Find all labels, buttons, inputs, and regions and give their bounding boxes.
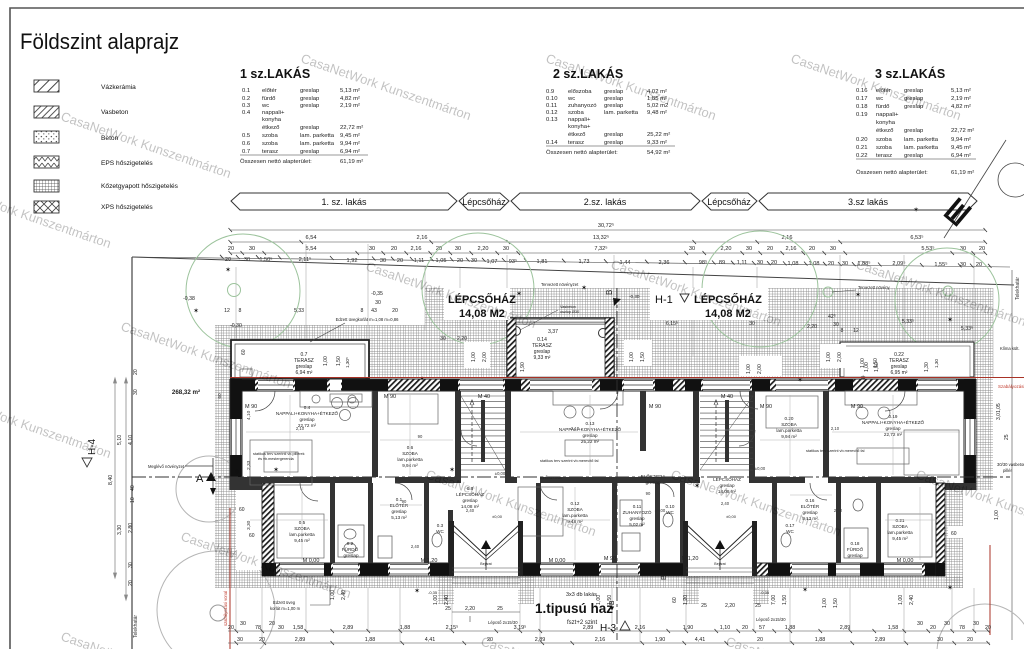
svg-text:6,94 m²: 6,94 m² [951,153,971,159]
terrace side walls [507,318,614,377]
svg-text:szoba: szoba [568,110,584,116]
svg-text:0.3: 0.3 [242,103,251,109]
svg-text:szoba: szoba [876,137,892,143]
svg-text:0.2: 0.2 [242,96,250,102]
svg-text:✶: ✶ [419,375,425,383]
svg-text:±0,00: ±0,00 [492,514,503,519]
svg-text:greslap: greslap [645,480,661,485]
yard paving hatch [215,288,993,604]
svg-text:-0,35: -0,35 [428,590,438,595]
north arrow top right [943,140,1024,238]
svg-text:9,94 m²: 9,94 m² [781,434,797,439]
terrace 0.7 [231,340,369,378]
stairwell 1 stairs [461,396,505,470]
svg-text:étkező: étkező [262,125,280,131]
svg-text:2,20: 2,20 [807,324,817,330]
svg-text:SZOBA: SZOBA [402,451,419,456]
survey star markers [193,206,953,595]
svg-text:Edzett üveg: Edzett üveg [273,600,296,605]
svg-text:2,89: 2,89 [295,637,306,643]
left inner rotated dims [246,410,970,530]
svg-text:5,10: 5,10 [117,435,123,445]
stair direction arrows [470,400,718,462]
svg-text:8,40: 8,40 [108,475,114,485]
svg-text:25,22 m²: 25,22 m² [581,439,600,444]
svg-text:konyha: konyha [262,117,282,123]
svg-text:20: 20 [133,369,139,375]
svg-text:1,50: 1,50 [640,352,646,362]
stairwell 1 walls [455,391,461,483]
svg-text:1,50: 1,50 [607,595,613,605]
terrace inner dims rotated [241,349,930,372]
svg-text:1,00: 1,00 [433,595,439,605]
svg-text:90: 90 [402,499,407,504]
svg-text:statikus terv szerinti vb.pill: statikus terv szerinti vb.pillérek [253,452,305,456]
svg-text:✶: ✶ [414,587,420,595]
svg-text:30: 30 [369,246,375,252]
svg-text:30: 30 [833,322,839,328]
svg-text:greslap: greslap [904,153,924,159]
svg-text:±0,00: ±0,00 [495,471,506,476]
apt1 vertical wall between living and szoba [372,391,378,477]
svg-text:60: 60 [217,393,223,399]
svg-text:30: 30 [128,562,134,568]
svg-text:0.4: 0.4 [304,405,311,410]
svg-text:lam. parketta: lam. parketta [300,133,335,139]
svg-text:greslap: greslap [604,103,624,109]
furniture: apt3 szoba 0.20 bed [766,396,818,428]
svg-text:WC: WC [786,529,794,534]
svg-text:lam. parketta: lam. parketta [604,110,639,116]
svg-text:greslap: greslap [904,128,924,134]
svg-text:1,10: 1,10 [720,625,731,631]
svg-text:5,33: 5,33 [294,308,304,314]
terrace 0.22 [840,342,974,377]
apt3 vertical wall [823,391,829,477]
svg-text:0.11: 0.11 [546,103,557,109]
svg-text:30: 30 [375,300,381,306]
svg-text:2,20: 2,20 [725,603,735,609]
svg-text:3.sz lakás: 3.sz lakás [848,197,889,207]
svg-text:3,30: 3,30 [246,520,252,530]
svg-text:9,94 m²: 9,94 m² [340,141,360,147]
left outer wall [230,379,274,576]
bath fixtures apt3 [781,499,868,558]
svg-text:greslap: greslap [604,132,624,138]
svg-text:25: 25 [1004,434,1010,440]
svg-text:30: 30 [937,637,943,643]
svg-text:1,90: 1,90 [683,625,694,631]
svg-text:90: 90 [418,434,423,439]
bottom dimension chains [228,631,990,643]
svg-text:7,32⁵: 7,32⁵ [594,245,607,252]
svg-text:✶: ✶ [449,466,455,474]
svg-text:9,45 m²: 9,45 m² [340,133,360,139]
svg-text:lam. parketta: lam. parketta [300,141,335,147]
svg-text:lam. parketta: lam. parketta [904,137,939,143]
svg-text:CasaNetWork Kunszentmárton: CasaNetWork Kunszentmárton [299,51,473,123]
svg-text:-0,38: -0,38 [183,296,195,302]
svg-text:Telekhatár: Telekhatár [1015,277,1021,300]
svg-text:1,90: 1,90 [655,637,666,643]
svg-text:1,30: 1,30 [934,359,939,368]
svg-text:2,00: 2,00 [837,352,843,362]
svg-text:✶: ✶ [802,586,808,594]
svg-text:4,41: 4,41 [425,637,436,643]
svg-text:0.14: 0.14 [546,140,558,146]
svg-text:89: 89 [719,260,725,266]
svg-text:1,05: 1,05 [436,258,447,264]
svg-text:20: 20 [128,580,134,586]
svg-text:zuhanyozó: zuhanyozó [568,103,597,109]
svg-text:5,33⁵: 5,33⁵ [902,319,914,325]
svg-text:1,30⁵: 1,30⁵ [345,357,350,368]
svg-text:20: 20 [967,637,973,643]
svg-text:lam.parketta: lam.parketta [887,530,913,535]
svg-text:0.1: 0.1 [242,88,250,94]
svg-text:3,37: 3,37 [548,329,558,335]
svg-text:9,45 m²: 9,45 m² [294,538,310,543]
svg-text:78: 78 [959,625,965,631]
svg-text:1,92: 1,92 [347,258,358,264]
svg-text:1,50: 1,50 [874,362,880,372]
svg-text:1,08: 1,08 [809,261,820,267]
svg-text:✶: ✶ [913,206,919,214]
svg-text:Szabályozási: Szabályozási [998,384,1024,389]
stairwell 2 walls [749,391,755,483]
site boundary: slanted top line [132,257,1014,285]
svg-text:25,22 m²: 25,22 m² [647,132,670,138]
svg-text:Telekhatár: Telekhatár [133,615,139,638]
furniture: apt3 living [845,391,959,475]
svg-text:25: 25 [755,603,761,609]
svg-text:30: 30 [973,621,979,627]
svg-text:30: 30 [278,625,284,631]
svg-text:1,00: 1,00 [629,352,635,362]
svg-text:6,94 m²: 6,94 m² [340,149,360,155]
svg-text:1,20: 1,20 [683,595,689,605]
vertical guide lines from dims to plan [236,244,993,377]
svg-text:9,45 m²: 9,45 m² [951,145,971,151]
svg-text:30/30 vasbeton: 30/30 vasbeton [997,462,1024,467]
svg-text:8: 8 [361,308,364,314]
svg-text:30: 30 [746,246,752,252]
svg-text:90: 90 [646,491,651,496]
svg-text:20: 20 [391,246,397,252]
svg-text:oszlop Ø30: oszlop Ø30 [560,310,579,314]
svg-text:greslap: greslap [300,149,320,155]
svg-text:M 0,00: M 0,00 [303,558,320,564]
svg-text:6,54: 6,54 [306,235,317,241]
furniture: apt1 szoba 0.5 bed [277,514,324,558]
big stair labels above plan [444,288,510,320]
svg-text:20: 20 [771,260,777,266]
svg-text:20: 20 [985,625,991,631]
svg-text:Összesen nettó alapterület:: Összesen nettó alapterület: [546,149,618,156]
svg-text:30: 30 [757,260,763,266]
svg-text:9,94 m²: 9,94 m² [951,137,971,143]
svg-text:1,00: 1,00 [596,595,602,605]
svg-text:✶: ✶ [193,307,199,315]
svg-text:WC: WC [666,510,674,515]
svg-text:13,32⁵: 13,32⁵ [593,234,609,241]
svg-text:4,10: 4,10 [128,435,134,445]
svg-text:2,00: 2,00 [482,352,488,362]
room labels [276,405,925,558]
bottom-left existing vegetation circles (gray) [157,456,1024,649]
svg-text:1,00: 1,00 [826,352,832,362]
svg-text:1,55⁵: 1,55⁵ [934,261,947,268]
svg-text:1,88: 1,88 [400,625,411,631]
bottom row partitions apt2 [536,483,541,563]
svg-text:6,94 m²: 6,94 m² [296,370,313,376]
svg-text:30: 30 [689,246,695,252]
bottom row partitions apt1 [330,483,335,563]
svg-text:0.3: 0.3 [437,523,444,528]
svg-text:20: 20 [976,262,982,268]
svg-text:Bejárat: Bejárat [714,562,725,566]
svg-text:±0,00: ±0,00 [755,466,766,471]
svg-text:M 90: M 90 [649,404,661,410]
svg-text:2,89: 2,89 [535,637,546,643]
svg-text:terasz: terasz [262,149,278,155]
svg-text:Lépcsőház: Lépcsőház [462,197,506,207]
svg-text:40: 40 [130,485,136,491]
svg-text:0.12: 0.12 [546,110,557,116]
svg-text:1 sz.LAKÁS: 1 sz.LAKÁS [240,66,310,81]
svg-text:1,00: 1,00 [864,362,870,372]
svg-text:9,48 m²: 9,48 m² [647,110,667,116]
svg-text:terasz: terasz [876,153,892,159]
svg-text:2,16: 2,16 [635,625,646,631]
svg-text:20: 20 [742,625,748,631]
furniture: apt1 szoba 0.6 bed [388,394,438,424]
svg-text:1,00: 1,00 [746,364,752,374]
svg-text:2.sz. lakás: 2.sz. lakás [584,197,627,207]
svg-text:54,92 m²: 54,92 m² [647,150,670,156]
apartment table 2 [546,66,675,156]
svg-text:±0,00: ±0,00 [726,514,737,519]
svg-text:8: 8 [239,308,242,314]
svg-text:1,50: 1,50 [833,598,839,608]
svg-text:30: 30 [917,621,923,627]
apt2 vertical walls [640,391,646,451]
svg-text:3x3 db lakás: 3x3 db lakás [566,592,597,598]
svg-text:1,90: 1,90 [520,362,526,372]
svg-text:szoba: szoba [876,145,892,151]
svg-text:0.18: 0.18 [851,541,860,546]
svg-text:268,32 m²: 268,32 m² [172,389,200,396]
svg-text:1,11: 1,11 [414,258,424,264]
svg-text:terasz: terasz [568,140,584,146]
svg-text:30: 30 [240,621,246,627]
svg-text:1,88: 1,88 [815,637,826,643]
svg-text:7,00: 7,00 [771,595,777,605]
svg-text:greslap: greslap [604,140,624,146]
svg-text:ELŐTÉR: ELŐTÉR [801,503,820,509]
furniture: apt3 szoba 0.21 bed [888,514,932,557]
svg-text:30: 30 [830,246,836,252]
svg-text:2,20: 2,20 [457,336,467,342]
svg-text:4,82 m²: 4,82 m² [340,96,360,102]
svg-text:CasaNetWork Kunszentmárton: CasaNetWork Kunszentmárton [479,634,653,649]
svg-text:5,53⁵: 5,53⁵ [921,245,934,252]
svg-text:60: 60 [239,507,245,513]
svg-text:CasaNetWork Kunszentmárton: CasaNetWork Kunszentmárton [0,389,113,461]
svg-text:lam.parketta: lam.parketta [776,428,802,433]
svg-text:Tervezett növényzet: Tervezett növényzet [541,282,579,287]
svg-text:2,16: 2,16 [411,246,422,252]
porch 2 (recessed entry) [683,521,757,583]
svg-text:1,30: 1,30 [924,362,930,372]
svg-text:M 90: M 90 [851,404,863,410]
svg-text:20: 20 [269,621,275,627]
svg-text:12: 12 [224,308,230,314]
building interior [236,383,970,570]
svg-text:22,72 m²: 22,72 m² [340,125,363,131]
svg-text:greslap: greslap [462,498,478,503]
svg-text:30: 30 [455,246,461,252]
svg-text:M 1,20: M 1,20 [421,558,438,564]
svg-text:FÜRDŐ: FÜRDŐ [847,546,864,552]
svg-text:30: 30 [440,336,446,342]
svg-text:M 90: M 90 [384,394,396,400]
svg-text:0.16: 0.16 [806,498,815,503]
bottom vertical guide lines [236,588,974,642]
mid horizontal wall [242,477,372,483]
svg-text:5,13 m²: 5,13 m² [340,88,360,94]
svg-text:M 90: M 90 [760,404,772,410]
door arcs [255,391,905,501]
svg-text:5,13 m²: 5,13 m² [391,515,407,520]
svg-text:greslap: greslap [391,509,407,514]
svg-text:szabályozási vonal: szabályozási vonal [223,591,228,626]
svg-text:konyha: konyha [876,120,896,126]
svg-text:2,89: 2,89 [875,637,886,643]
svg-text:2,40: 2,40 [721,501,730,506]
svg-text:0.17: 0.17 [856,96,867,102]
svg-text:6,95 m²: 6,95 m² [891,370,908,376]
bath fixtures apt2 [620,500,673,551]
svg-text:1,58: 1,58 [888,625,899,631]
svg-text:8: 8 [841,328,844,334]
svg-text:M 1,20: M 1,20 [682,556,699,562]
svg-text:6,15⁵: 6,15⁵ [666,321,678,327]
svg-text:Bejárat: Bejárat [480,562,491,566]
svg-text:2,15⁵: 2,15⁵ [446,625,459,631]
svg-text:5,33⁵: 5,33⁵ [961,326,973,332]
svg-text:4,41: 4,41 [695,637,706,643]
svg-text:✶: ✶ [516,290,522,298]
svg-text:lam. parketta: lam. parketta [904,145,939,151]
svg-text:étkező: étkező [876,128,894,134]
svg-text:fürdő: fürdő [262,96,276,102]
svg-text:9,33 m²: 9,33 m² [534,355,551,361]
svg-text:✶: ✶ [225,266,231,274]
svg-text:M 0,00: M 0,00 [897,558,914,564]
svg-text:FÜRDŐ: FÜRDŐ [342,546,359,552]
svg-text:Meglévő növényzet: Meglévő növényzet [148,464,185,469]
svg-text:2,16: 2,16 [595,637,606,643]
svg-text:25: 25 [701,603,707,609]
svg-text:2,19 m²: 2,19 m² [951,96,971,102]
svg-text:H-1: H-1 [655,294,673,306]
svg-text:Földszint alaprajz: Földszint alaprajz [20,29,179,54]
svg-text:1. sz. lakás: 1. sz. lakás [321,197,367,207]
svg-text:9,45 m²: 9,45 m² [892,536,908,541]
svg-text:30: 30 [842,261,848,267]
site boundary: left telekhatár [131,257,133,649]
svg-text:1,88: 1,88 [785,625,796,631]
svg-text:nappali+: nappali+ [568,117,591,123]
svg-text:20: 20 [757,637,763,643]
svg-text:Kőzetgyapott hőszigetelés: Kőzetgyapott hőszigetelés [101,183,179,190]
svg-text:0.9: 0.9 [546,89,554,95]
svg-text:1,00: 1,00 [471,352,477,362]
svg-text:Összesen nettó alapterület:: Összesen nettó alapterület: [856,169,928,176]
interior walls [230,391,936,563]
bottom row partitions apt3 [772,483,777,563]
bottom chain ticks [235,629,991,645]
svg-text:0.20: 0.20 [785,416,794,421]
svg-text:42⁵: 42⁵ [828,314,836,320]
svg-text:✶: ✶ [855,291,861,299]
svg-text:✶: ✶ [947,316,953,324]
svg-text:✶: ✶ [581,284,587,292]
svg-text:-0,35: -0,35 [760,590,770,595]
white notch in hatch near stair2 top [739,356,782,376]
svg-text:10: 10 [130,497,136,503]
svg-text:2,20: 2,20 [465,606,475,612]
svg-text:5,13 m²: 5,13 m² [951,88,971,94]
svg-text:Lépcsőház: Lépcsőház [707,197,751,207]
svg-text:0.11: 0.11 [633,504,642,509]
notch step wall [936,483,976,490]
svg-text:WC: WC [436,529,444,534]
svg-text:30: 30 [944,621,950,627]
svg-text:korlát m=1,00 m: korlát m=1,00 m [270,606,301,611]
svg-text:2,40: 2,40 [444,595,450,605]
svg-text:2,10: 2,10 [834,508,843,513]
svg-text:20: 20 [809,246,815,252]
svg-text:wc: wc [567,96,575,102]
svg-text:M 0,00: M 0,00 [549,558,566,564]
svg-text:XPS hőszigetelés: XPS hőszigetelés [101,204,153,211]
svg-text:9,94 m²: 9,94 m² [402,463,418,468]
svg-text:SZOBA: SZOBA [892,524,909,529]
furniture: apt1 living table+chairs [250,391,372,485]
svg-text:0.13: 0.13 [546,117,558,123]
svg-text:SZOBA: SZOBA [567,507,584,512]
svg-text:5,54: 5,54 [306,246,317,252]
svg-text:✶: ✶ [234,468,240,476]
outer walls: top wall band [230,379,976,391]
svg-text:3,01,05: 3,01,05 [996,403,1002,420]
svg-text:2,19 m²: 2,19 m² [340,103,360,109]
svg-text:61,19 m²: 61,19 m² [340,159,363,165]
svg-text:25: 25 [445,606,451,612]
svg-text:-0,30: -0,30 [230,323,242,329]
svg-text:ELŐSZOBA: ELŐSZOBA [540,475,562,480]
svg-text:60: 60 [249,533,255,539]
svg-text:greslap: greslap [300,125,320,131]
svg-text:1,11: 1,11 [737,260,747,266]
svg-text:20: 20 [979,246,985,252]
trees (green circles) [186,231,999,352]
svg-text:1,88: 1,88 [365,637,376,643]
svg-text:0.22: 0.22 [856,153,867,159]
svg-text:0.21: 0.21 [896,518,905,523]
